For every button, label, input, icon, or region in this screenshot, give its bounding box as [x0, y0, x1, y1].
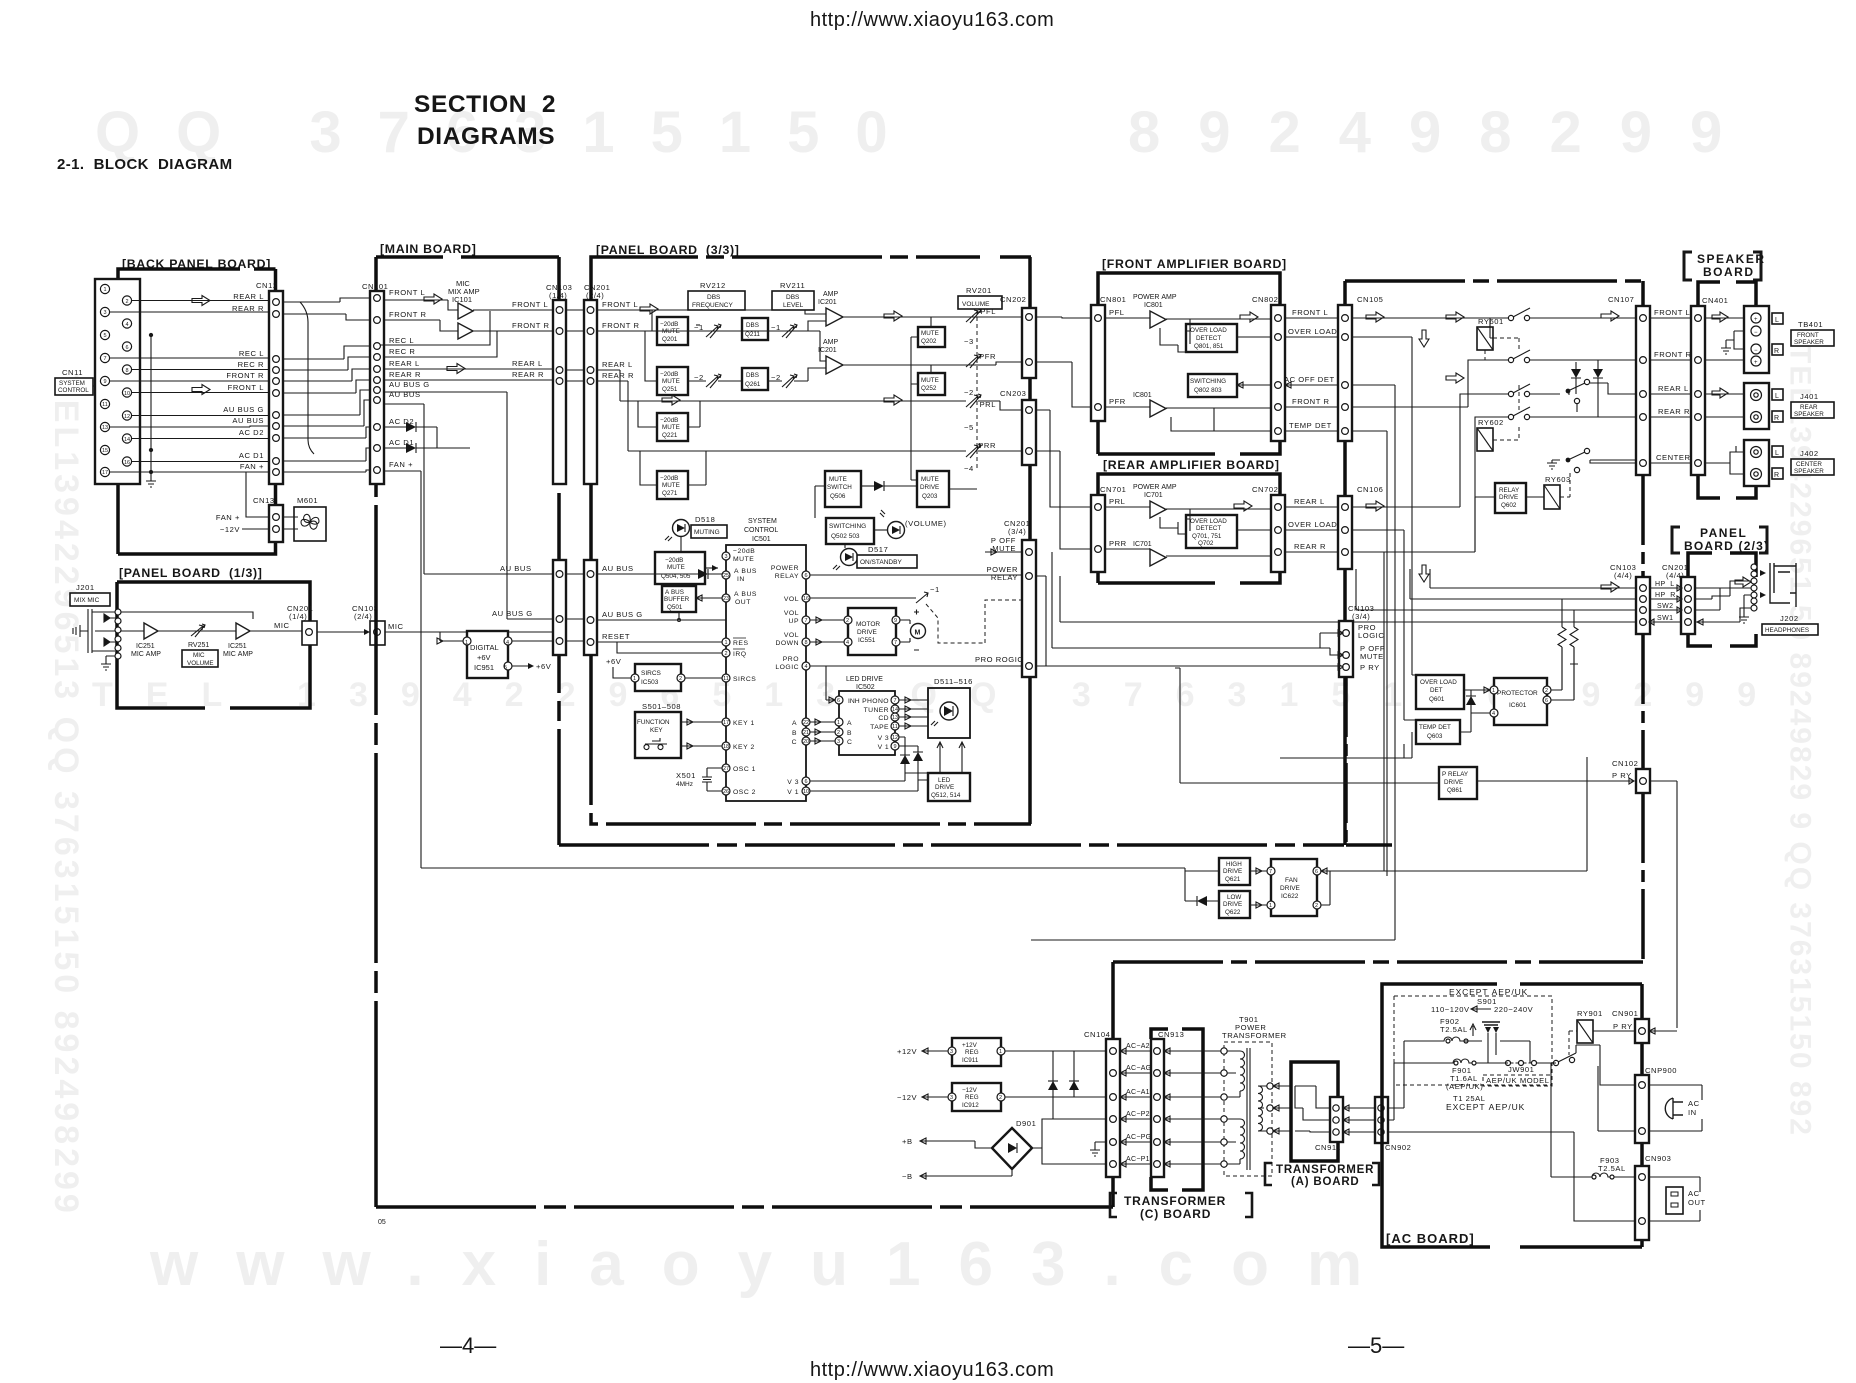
svg-text:(3/4): (3/4) [1352, 612, 1370, 621]
svg-text:−3: −3 [964, 337, 974, 346]
wire MIC onward [385, 632, 560, 652]
board title PANEL BOARD (2/3) [1672, 527, 1767, 553]
svg-text:27: 27 [723, 766, 729, 772]
svg-text:6: 6 [125, 345, 128, 351]
svg-text:DRIVE: DRIVE [1223, 868, 1242, 875]
svg-text:CN701: CN701 [1100, 485, 1126, 494]
svg-text:5: 5 [504, 665, 507, 671]
row labels HP SW [1655, 581, 1676, 622]
svg-text:10: 10 [803, 789, 809, 795]
svg-text:−20dB: −20dB [660, 371, 678, 378]
wires CN913 to T901 [1164, 1048, 1224, 1167]
svg-text:REAR R: REAR R [602, 371, 634, 380]
svg-text:AU BUS G: AU BUS G [389, 380, 430, 389]
svg-text:Q502 503: Q502 503 [831, 533, 860, 540]
svg-text:AC−PG: AC−PG [1126, 1134, 1151, 1141]
svg-text:R: R [1774, 415, 1779, 422]
svg-text:Q602: Q602 [1501, 502, 1517, 509]
wires to TB401 [1705, 318, 1744, 360]
svg-text:REC R: REC R [238, 360, 264, 369]
mute -20dB Q271 [657, 471, 688, 499]
wire CN201(1/4) to CN103(2/4) [317, 631, 370, 633]
svg-text:SW1: SW1 [1657, 615, 1673, 622]
svg-text:RV251: RV251 [188, 642, 209, 649]
svg-text:13: 13 [102, 425, 108, 431]
svg-text:MIC: MIC [388, 622, 404, 631]
svg-text:[FRONT AMPLIFIER BOARD]: [FRONT AMPLIFIER BOARD] [1102, 257, 1287, 271]
svg-text:+12V: +12V [962, 1042, 978, 1049]
svg-text:2: 2 [837, 730, 840, 736]
wire power relay row [810, 574, 1022, 576]
diode AC D1 [384, 447, 406, 449]
svg-text:+: + [1754, 317, 1758, 323]
IC501 right pins [802, 571, 810, 795]
mute drive Q203 [917, 471, 949, 507]
svg-text:CN13: CN13 [253, 496, 275, 505]
wires IC502 to leds [899, 697, 928, 729]
attenuator 2 [782, 324, 797, 338]
svg-text:REAR L: REAR L [1294, 497, 1325, 506]
svg-text:CN101: CN101 [362, 282, 388, 291]
svg-text:2: 2 [1315, 903, 1318, 909]
wires CN13 to M601 [283, 517, 298, 529]
overload detect Q801,851 [1186, 324, 1237, 352]
svg-text:VOLUME: VOLUME [187, 660, 214, 667]
svg-text:PFR: PFR [1109, 397, 1126, 406]
svg-text:(2/4): (2/4) [586, 291, 604, 300]
svg-text:AC−A1: AC−A1 [1126, 1089, 1150, 1096]
svg-text:892498299: 892498299 [1128, 100, 1760, 165]
led D517 ON/STANDBY [841, 549, 858, 566]
svg-text:M601: M601 [297, 496, 318, 505]
block arrow on FRONT L [192, 385, 210, 395]
wires inside transformer A [1295, 1086, 1330, 1132]
svg-text:7: 7 [103, 356, 106, 362]
AC board outline [1382, 984, 1642, 1247]
svg-text:−20dB: −20dB [733, 548, 755, 555]
wire bundle CN12 to CN101 [283, 298, 370, 472]
svg-text:T2.5AL: T2.5AL [1598, 1164, 1626, 1173]
relay drive Q602 [1495, 483, 1526, 513]
wires T901 to transformer A [1273, 1083, 1291, 1134]
svg-text:RY603: RY603 [1545, 475, 1571, 484]
switch front R [1508, 357, 1513, 362]
svg-text:CENTER: CENTER [1656, 453, 1691, 462]
svg-text:IC251: IC251 [228, 643, 247, 650]
svg-text:UP: UP [789, 618, 799, 625]
svg-text:SIRCS: SIRCS [641, 670, 662, 677]
svg-text:A: A [792, 720, 797, 727]
svg-text:9: 9 [894, 618, 897, 624]
svg-text:FAN +: FAN + [389, 460, 413, 469]
svg-text:SYSTEM: SYSTEM [59, 380, 85, 387]
wires jack [1695, 581, 1751, 625]
svg-text:V 3: V 3 [787, 779, 799, 786]
CN101 signal labels [389, 288, 430, 469]
svg-text:+12V: +12V [897, 1047, 918, 1056]
block arrow to front speaker [1712, 312, 1728, 322]
svg-text:BOARD: BOARD [1703, 265, 1755, 279]
svg-text:1: 1 [999, 1049, 1002, 1055]
svg-text:3: 3 [724, 554, 727, 560]
volume attenuator PRL [966, 394, 981, 408]
svg-text:B: B [847, 730, 852, 737]
wires rear R [597, 381, 1023, 485]
svg-text:Q252: Q252 [921, 385, 937, 392]
CN12 signal labels [223, 292, 264, 471]
p relay drive Q861 [1439, 767, 1477, 799]
svg-text:A BUS: A BUS [734, 591, 757, 598]
headphone jack J202 body [1770, 563, 1796, 607]
svg-text:LEVEL: LEVEL [783, 302, 804, 309]
terminal TB401 [1744, 306, 1769, 373]
INH wire [826, 666, 835, 703]
wires p relay [1175, 668, 1677, 1028]
block arrow down 1 [1419, 330, 1429, 347]
transformer A board outline [1291, 1062, 1338, 1161]
svg-text:2: 2 [724, 651, 727, 657]
svg-text:AC: AC [1688, 1099, 1700, 1108]
svg-text:AC−P2: AC−P2 [1126, 1111, 1150, 1118]
board outline MAIN BOARD right edge [557, 257, 561, 845]
board outline MAIN BOARD bottom edge [376, 1205, 1113, 1209]
svg-text:2: 2 [1545, 688, 1548, 694]
labels CN802-CN105 rows [1284, 308, 1337, 551]
long wires HP rows [1060, 569, 1636, 622]
svg-text:AMP: AMP [823, 291, 839, 298]
svg-text:DRIVE: DRIVE [1444, 779, 1463, 786]
svg-text:AC−AG: AC−AG [1126, 1065, 1151, 1072]
svg-text:DIAGRAMS: DIAGRAMS [417, 123, 555, 150]
svg-text:3: 3 [837, 739, 840, 745]
svg-text:http://www.xiaoyu163.com: http://www.xiaoyu163.com [810, 1359, 1054, 1381]
svg-text:Q801, 851: Q801, 851 [1194, 343, 1224, 350]
svg-text:4: 4 [804, 664, 807, 670]
wires IC951 [437, 638, 553, 666]
block arrow FRONT L [640, 304, 658, 314]
svg-text:Q501: Q501 [667, 604, 683, 611]
row labels AC [1126, 1043, 1151, 1163]
svg-text:REC R: REC R [389, 347, 415, 356]
main switch S901 [1553, 1060, 1558, 1065]
IC501 pin labels [733, 548, 757, 796]
wires up from Q512 to leds [937, 742, 965, 773]
svg-text:17: 17 [723, 720, 729, 726]
svg-text:PHONO: PHONO [862, 698, 889, 705]
wires V3 V1 rows [810, 773, 918, 791]
thick bus line to relay board [559, 843, 1344, 847]
transformer T901 dashed box [1224, 1042, 1272, 1176]
transformer secondary [1258, 1086, 1268, 1131]
svg-text:−12V: −12V [897, 1093, 918, 1102]
vol pot wire [810, 597, 916, 599]
transformer core [1247, 1048, 1250, 1170]
wires front l/r through amp [380, 300, 553, 357]
svg-text:HEADPHONES: HEADPHONES [1765, 627, 1809, 634]
wires CN802 to CN105 [1285, 318, 1338, 431]
svg-text:FRONT L: FRONT L [1292, 308, 1328, 317]
svg-text:IC801: IC801 [1133, 392, 1152, 399]
mute -20dB Q221 [657, 413, 688, 441]
volume RV251 [191, 624, 205, 637]
svg-text:IC503: IC503 [641, 679, 659, 686]
ABC wires into IC502 [835, 718, 843, 745]
svg-text:LOW: LOW [1227, 894, 1241, 901]
board outline MAIN BOARD top edge [376, 255, 559, 259]
svg-text:CN102: CN102 [1612, 759, 1638, 768]
svg-text:(1/4): (1/4) [289, 612, 307, 621]
svg-text:J402: J402 [1800, 449, 1819, 458]
svg-text:REC L: REC L [389, 336, 414, 345]
wires CN202 to CN801 [1036, 317, 1091, 318]
svg-text:RELAY: RELAY [775, 573, 799, 580]
svg-text:11: 11 [723, 676, 729, 682]
svg-text:OUT: OUT [735, 599, 751, 606]
svg-text:−B: −B [902, 1172, 913, 1181]
svg-text:CONTROL: CONTROL [58, 387, 89, 394]
svg-text:DRIVE: DRIVE [1499, 494, 1518, 501]
mute Q252 [918, 373, 945, 395]
svg-text:JW901: JW901 [1508, 1065, 1534, 1074]
volume attenuator PFR [966, 354, 981, 368]
svg-text:CN401: CN401 [1702, 296, 1728, 305]
svg-text:−4: −4 [964, 464, 974, 473]
thick vertical CN107-CN102-AC [1641, 281, 1645, 962]
wires AU BUS to lower bus [385, 392, 553, 619]
svg-text:23: 23 [723, 596, 729, 602]
svg-text:MIC: MIC [274, 621, 290, 630]
svg-text:−20dB: −20dB [660, 475, 678, 482]
svg-text:9: 9 [893, 744, 896, 750]
svg-text:(1/4): (1/4) [549, 291, 567, 300]
svg-text:EXCEPT AEP/UK: EXCEPT AEP/UK [1446, 1102, 1525, 1112]
svg-text:2: 2 [679, 676, 682, 682]
ground TB401 [1721, 348, 1731, 354]
svg-text:IRQ: IRQ [733, 651, 747, 658]
svg-text:(VOLUME): (VOLUME) [905, 519, 947, 528]
svg-text:Q512, 514: Q512, 514 [931, 792, 961, 799]
volume attenuator PFL [966, 309, 981, 323]
wire p off mute [985, 549, 1022, 555]
svg-text:CN802: CN802 [1252, 295, 1278, 304]
svg-text:3: 3 [103, 310, 106, 316]
svg-text:FRONT L: FRONT L [389, 288, 425, 297]
svg-text:CN903: CN903 [1645, 1154, 1671, 1163]
svg-text:11: 11 [102, 402, 108, 408]
svg-text:TRANSFORMER: TRANSFORMER [1276, 1164, 1374, 1176]
svg-text:7: 7 [1269, 869, 1272, 875]
svg-text:SYSTEM: SYSTEM [748, 518, 777, 525]
svg-text:L: L [1775, 393, 1779, 400]
svg-text:Q202: Q202 [921, 338, 937, 345]
svg-text:3: 3 [950, 1049, 953, 1055]
svg-text:IC601: IC601 [1509, 702, 1527, 709]
block arrow HP L [1601, 582, 1619, 592]
svg-text:SPEAKER: SPEAKER [1794, 411, 1824, 418]
a bus buffer Q501 [662, 586, 696, 612]
svg-text:FUNCTION: FUNCTION [637, 719, 670, 726]
svg-text:SW2: SW2 [1657, 603, 1673, 610]
svg-text:REAR L: REAR L [389, 359, 420, 368]
svg-text:OVER LOAD: OVER LOAD [1190, 327, 1227, 334]
svg-text:V 3: V 3 [878, 735, 889, 742]
switch rear L [1508, 391, 1513, 396]
svg-text:DRIVE: DRIVE [935, 784, 954, 791]
svg-text:CN107: CN107 [1608, 295, 1634, 304]
svg-text:A: A [847, 720, 852, 727]
svg-text:CN702: CN702 [1252, 485, 1278, 494]
svg-text:−1: −1 [930, 585, 940, 594]
svg-text:IC101: IC101 [452, 295, 472, 304]
svg-text:RV201: RV201 [966, 286, 992, 295]
svg-text:8: 8 [804, 640, 807, 646]
changeover switch center [1566, 458, 1571, 463]
svg-text:TEMP DET: TEMP DET [1419, 724, 1451, 731]
wires CN103 to CN201 [566, 310, 584, 641]
svg-text:MUTE: MUTE [667, 564, 685, 571]
svg-text:25: 25 [723, 573, 729, 579]
svg-text:A BUS: A BUS [734, 568, 757, 575]
svg-text:J202: J202 [1780, 614, 1799, 623]
svg-text:(4/4): (4/4) [1614, 571, 1632, 580]
svg-text:Q603: Q603 [1427, 733, 1443, 740]
svg-text:REAR R: REAR R [1294, 542, 1326, 551]
svg-text:IC551: IC551 [858, 637, 876, 644]
svg-text:+: + [1754, 360, 1758, 366]
switch rear R [1508, 414, 1513, 419]
wires rear amp [1105, 507, 1271, 556]
jack J201 symbol [73, 609, 121, 659]
svg-text:(C) BOARD: (C) BOARD [1140, 1207, 1211, 1221]
svg-text:4: 4 [506, 640, 509, 646]
svg-text:M: M [915, 630, 921, 637]
block arrow front L to CN107 [1601, 311, 1619, 321]
svg-text:REAR L: REAR L [512, 359, 543, 368]
svg-text:PFR: PFR [979, 352, 996, 361]
svg-text:OUT: OUT [1688, 1198, 1706, 1207]
wires relay matrix [1031, 318, 1636, 940]
ground AC-PG [1090, 1142, 1106, 1156]
wires CN203 to CN701 [1036, 410, 1091, 507]
board outline PANEL BOARD (2/3) [1688, 553, 1756, 646]
regulator +12V IC911 [952, 1038, 1001, 1066]
block arrow inside panel 2/3 [1735, 577, 1751, 587]
wire FAN+ loop to CN13 [242, 472, 270, 529]
svg-text:IC951: IC951 [474, 663, 494, 672]
svg-text:REAR L: REAR L [602, 360, 633, 369]
svg-text:DRIVE: DRIVE [857, 629, 878, 636]
diode low drive [1197, 896, 1207, 906]
transformer T901 primary winding [1227, 1051, 1245, 1097]
svg-text:CN203: CN203 [1000, 389, 1026, 398]
svg-text:AU BUS: AU BUS [500, 564, 532, 573]
svg-text:Q601: Q601 [1429, 696, 1445, 703]
svg-text:IC201: IC201 [818, 347, 837, 354]
svg-text:S501–508: S501–508 [642, 702, 681, 711]
dashed relay links [1485, 338, 1519, 440]
svg-text:4: 4 [1492, 711, 1495, 717]
mute -20dB Q201 [657, 317, 688, 345]
wire AU BUS G [597, 619, 726, 622]
labels right of CN201(2/4) [602, 300, 643, 641]
svg-text:15: 15 [102, 448, 108, 454]
svg-text:TB401: TB401 [1798, 320, 1823, 329]
svg-text:J201: J201 [76, 583, 95, 592]
mic amp IC251 (right) [236, 623, 250, 639]
svg-text:REAR R: REAR R [389, 370, 421, 379]
svg-text:+B: +B [902, 1137, 913, 1146]
svg-text:AC D1: AC D1 [239, 451, 264, 460]
svg-text:Q251: Q251 [662, 386, 678, 393]
svg-text:PFL: PFL [980, 307, 996, 316]
svg-text:DBS: DBS [786, 294, 800, 301]
svg-text:−: − [1754, 348, 1758, 354]
svg-text:IN: IN [1688, 1108, 1697, 1117]
svg-text:IC801: IC801 [1144, 302, 1163, 309]
AEP/UK MODEL dashed label [1483, 1075, 1552, 1086]
svg-text:Q261: Q261 [745, 381, 761, 388]
svg-text:21: 21 [803, 730, 809, 736]
connector CN902 [1375, 1097, 1388, 1143]
svg-text:SWITCHING: SWITCHING [1190, 378, 1226, 385]
svg-text:OSC 2: OSC 2 [733, 789, 756, 796]
svg-text:[MAIN BOARD]: [MAIN BOARD] [380, 242, 477, 256]
resistors pullup [1558, 599, 1566, 690]
svg-text:FAN: FAN [1285, 877, 1298, 884]
svg-text:Q506: Q506 [830, 493, 846, 500]
svg-text:TEL13942296513 QQ 376315150 89: TEL13942296513 QQ 376315150 892498299 [47, 375, 85, 1217]
svg-text:FAN +: FAN + [216, 513, 240, 522]
svg-text:7: 7 [894, 640, 897, 646]
wires CN107 to CN401 [1650, 318, 1691, 463]
wires front L chain [597, 310, 1023, 331]
svg-text:1: 1 [837, 720, 840, 726]
svg-text:CONTROL: CONTROL [744, 527, 778, 534]
svg-text:PRO ROGIC: PRO ROGIC [975, 655, 1023, 664]
svg-text:BOARD (2/3): BOARD (2/3) [1684, 539, 1769, 553]
dashed gang line volume [976, 310, 978, 470]
svg-text:MUTE: MUTE [921, 476, 939, 483]
svg-text:REAR R: REAR R [232, 304, 264, 313]
svg-text:5: 5 [103, 333, 106, 339]
svg-text:FRONT R: FRONT R [512, 321, 550, 330]
svg-text:SPEAKER: SPEAKER [1794, 468, 1824, 475]
svg-text:CN902: CN902 [1385, 1143, 1411, 1152]
block arrow rear L out [884, 395, 902, 405]
bridge to CN104 [1032, 1119, 1106, 1164]
thick line below CN103(3/4) [1346, 677, 1392, 845]
svg-text:IC701: IC701 [1144, 492, 1163, 499]
svg-text:CNP900: CNP900 [1645, 1066, 1677, 1075]
svg-text:Q701, 751: Q701, 751 [1192, 533, 1222, 540]
svg-text:SPEAKER: SPEAKER [1697, 252, 1766, 266]
IC501 left pins [722, 552, 730, 795]
led VOLUME [888, 522, 905, 539]
svg-text:1: 1 [1269, 903, 1272, 909]
svg-text:IC201: IC201 [818, 299, 837, 306]
svg-text:MUTE: MUTE [662, 424, 680, 431]
svg-text:1: 1 [465, 640, 468, 646]
svg-text:MUTING: MUTING [694, 529, 720, 536]
ground panel 2/3 [1739, 614, 1749, 623]
svg-text:12: 12 [124, 414, 130, 420]
svg-text:3: 3 [950, 1095, 953, 1101]
svg-text:RY901: RY901 [1577, 1009, 1603, 1018]
svg-text:CN202: CN202 [1000, 295, 1026, 304]
svg-text:KEY 1: KEY 1 [733, 720, 755, 727]
svg-text:HP L: HP L [1655, 581, 1675, 588]
svg-text:−12V: −12V [220, 525, 241, 534]
